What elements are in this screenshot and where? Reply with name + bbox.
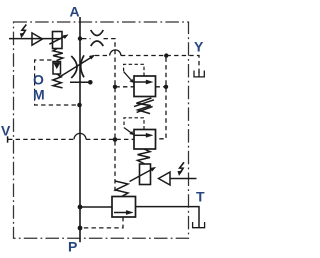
svg-text:P: P bbox=[68, 239, 77, 255]
node on orifice pilot line at valve1 bbox=[113, 85, 117, 89]
solenoid adjust arrow bbox=[49, 36, 65, 44]
V pilot line (dashed) bbox=[8, 138, 74, 140]
main relief valve body (bottom) bbox=[112, 197, 136, 218]
pilot line to Y (dashed) with crossover bump bbox=[95, 55, 110, 57]
solenoid adjust arrow bottom bbox=[130, 169, 152, 181]
pilot relief valve 1 dashed pilot box bbox=[124, 64, 144, 76]
svg-text:O: O bbox=[33, 72, 44, 88]
spring below armature box bbox=[53, 74, 63, 88]
spring between solenoid and armature box bbox=[53, 49, 63, 62]
valve 1 spring bbox=[136, 98, 151, 114]
fixed orifice bbox=[91, 30, 104, 36]
valve 1 left pilot connection (dashed) bbox=[115, 86, 134, 88]
plugged port Y bbox=[194, 71, 204, 77]
pilot relief valve 2 dashed pilot box bbox=[124, 118, 144, 130]
pilot line from orifice down (dashed) bbox=[104, 39, 116, 192]
dashed branch down from Y line to valves bbox=[156, 58, 167, 139]
svg-text:V: V bbox=[1, 122, 11, 138]
wire: valve outlet to T bbox=[136, 207, 200, 228]
crossover bump over main line bbox=[74, 133, 86, 139]
pilot relief valve 1 body bbox=[134, 76, 156, 97]
electric lightning symbol bottom-right bbox=[178, 162, 184, 175]
valve 2 left pilot connection (dashed from V) bbox=[86, 138, 134, 140]
pilot arrow into valve 2 bbox=[124, 128, 131, 133]
main valve spring bbox=[115, 181, 128, 196]
main line A to P bbox=[79, 17, 81, 242]
dashed option box with O M labels bbox=[35, 60, 77, 105]
svg-text:A: A bbox=[70, 4, 80, 20]
svg-text:Y: Y bbox=[194, 39, 204, 55]
throttle adjustment arrow bbox=[59, 57, 92, 78]
pilot relief valve 2 body bbox=[134, 130, 156, 150]
proportional solenoid box top bbox=[53, 32, 63, 49]
valve 1 internal flow arrow bbox=[134, 81, 148, 83]
node on orifice pilot line at valve2 bbox=[113, 137, 118, 142]
wire: solenoid supply line top-left bbox=[9, 38, 62, 40]
variable throttle arcs on main line bbox=[71, 56, 77, 78]
node on Y pilot line bbox=[164, 53, 168, 57]
amplifier triangle (pilot) bbox=[32, 33, 42, 45]
node valve1 right bbox=[164, 85, 168, 89]
compensator tap line with node dot bbox=[70, 81, 89, 83]
wire: main line to valve inlet bbox=[80, 206, 112, 208]
node main line to valve bbox=[78, 205, 83, 210]
main valve pilot line (dashed) bbox=[82, 217, 123, 228]
valve 1 right connection (dashed) bbox=[156, 86, 167, 88]
svg-text:T: T bbox=[196, 189, 205, 205]
junction node on main line at option box bbox=[77, 103, 82, 108]
svg-text:M: M bbox=[33, 87, 45, 103]
node main line pilot tap bbox=[78, 226, 83, 231]
electric lightning symbol top-left bbox=[20, 25, 26, 38]
wire: solenoid supply line bottom-right bbox=[170, 178, 197, 180]
V port end tick bbox=[7, 136, 9, 142]
junction node on main line top bbox=[78, 36, 82, 40]
plugged port T bbox=[193, 222, 205, 228]
amplifier triangle bottom (points left) bbox=[159, 172, 171, 185]
valve 2 internal flow arrow bbox=[134, 134, 148, 136]
main valve internal flow arrow bbox=[114, 212, 128, 214]
armature box with seated poppet (filled triangle) bbox=[53, 62, 61, 75]
enclosure boundary (dash-dot) bbox=[14, 22, 189, 238]
valve 2 spring to solenoid bbox=[138, 149, 151, 164]
proportional solenoid box bottom bbox=[140, 164, 151, 185]
pilot line to fixed orifice (dashed) bbox=[82, 38, 91, 40]
pilot arrow into valve 1 bbox=[124, 72, 131, 80]
